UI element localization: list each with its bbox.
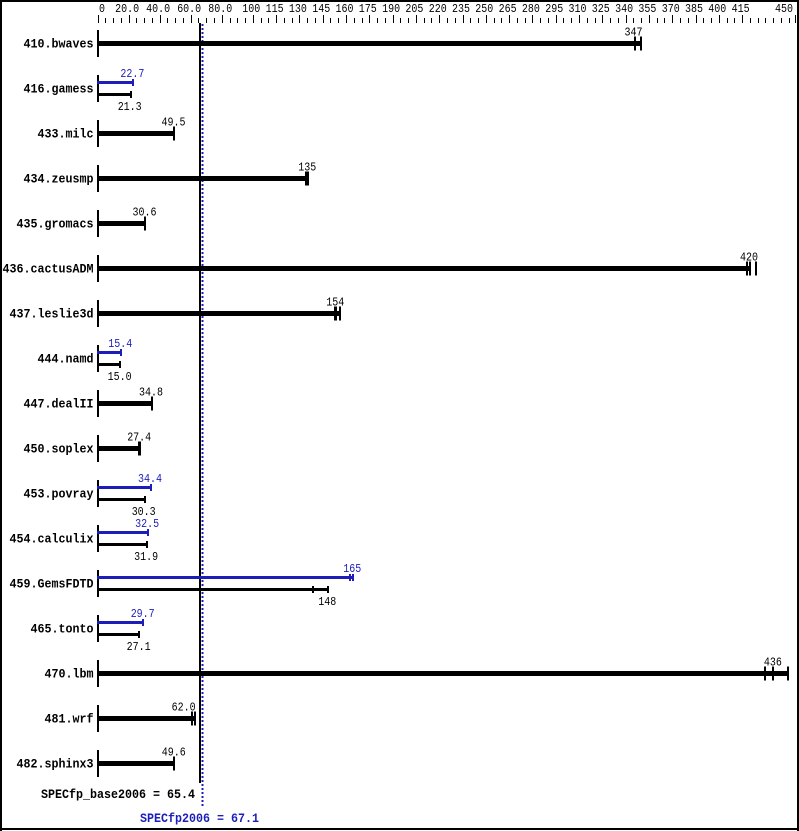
svg-text:340: 340 (615, 2, 633, 16)
row 410.bwaves (24, 26, 643, 58)
svg-text:20.0: 20.0 (115, 2, 139, 16)
svg-text:15.0: 15.0 (108, 370, 132, 384)
svg-text:62.0: 62.0 (172, 701, 196, 715)
svg-text:49.5: 49.5 (162, 116, 186, 130)
svg-text:27.4: 27.4 (127, 431, 151, 445)
row 453.povray (24, 472, 163, 519)
row 454.calculix (10, 517, 160, 564)
svg-text:385: 385 (685, 2, 703, 16)
row 433.milc (38, 116, 186, 148)
row 459.GemsFDTD (10, 562, 362, 609)
svg-text:115: 115 (266, 2, 284, 16)
row 481.wrf (45, 701, 197, 733)
row 437.leslie3d (10, 296, 345, 328)
reference line SPECfp_base2006 = 65.4 (199, 23, 201, 783)
axis ruler ticks (98, 15, 796, 23)
svg-text:154: 154 (326, 296, 344, 310)
svg-text:370: 370 (662, 2, 680, 16)
svg-text:416.gamess: 416.gamess (24, 82, 94, 97)
row 444.namd (38, 337, 133, 384)
svg-text:436: 436 (764, 656, 782, 670)
svg-text:450: 450 (775, 2, 793, 16)
svg-text:465.tonto: 465.tonto (31, 622, 94, 637)
svg-text:435.gromacs: 435.gromacs (17, 217, 94, 232)
row 436.cactusADM (3, 251, 759, 283)
row 465.tonto (31, 607, 155, 654)
svg-text:347: 347 (625, 26, 643, 40)
row 450.soplex (24, 431, 152, 463)
svg-text:220: 220 (429, 2, 447, 16)
svg-text:22.7: 22.7 (120, 67, 144, 81)
svg-text:130: 130 (289, 2, 307, 16)
row 470.lbm (45, 656, 790, 688)
row 416.gamess (24, 67, 145, 114)
svg-text:29.7: 29.7 (131, 607, 155, 621)
svg-text:205: 205 (405, 2, 423, 16)
svg-text:30.6: 30.6 (133, 206, 157, 220)
svg-text:444.namd: 444.namd (38, 352, 94, 367)
svg-text:447.dealII: 447.dealII (24, 397, 94, 412)
svg-text:454.calculix: 454.calculix (10, 532, 94, 547)
svg-text:80.0: 80.0 (208, 2, 232, 16)
svg-text:400: 400 (708, 2, 726, 16)
svg-text:32.5: 32.5 (135, 517, 159, 531)
axis scale labels (99, 2, 793, 16)
svg-text:0: 0 (99, 2, 105, 16)
svg-text:450.soplex: 450.soplex (24, 442, 94, 457)
row 482.sphinx3 (17, 746, 186, 778)
svg-text:40.0: 40.0 (146, 2, 170, 16)
svg-text:280: 280 (522, 2, 540, 16)
svg-text:60.0: 60.0 (177, 2, 201, 16)
svg-text:420: 420 (740, 251, 758, 265)
svg-text:482.sphinx3: 482.sphinx3 (17, 757, 94, 772)
svg-text:31.9: 31.9 (134, 550, 158, 564)
svg-text:355: 355 (638, 2, 656, 16)
row 434.zeusmp (24, 161, 317, 193)
svg-text:190: 190 (382, 2, 400, 16)
svg-text:434.zeusmp: 434.zeusmp (24, 172, 94, 187)
svg-text:437.leslie3d: 437.leslie3d (10, 307, 94, 322)
svg-text:34.4: 34.4 (138, 472, 162, 486)
svg-text:235: 235 (452, 2, 470, 16)
svg-text:436.cactusADM: 436.cactusADM (3, 262, 94, 277)
svg-text:21.3: 21.3 (118, 100, 142, 114)
svg-text:135: 135 (298, 161, 316, 175)
svg-text:100: 100 (242, 2, 260, 16)
svg-text:481.wrf: 481.wrf (45, 712, 94, 727)
svg-text:295: 295 (545, 2, 563, 16)
svg-text:49.6: 49.6 (162, 746, 186, 760)
svg-text:165: 165 (343, 562, 361, 576)
svg-text:15.4: 15.4 (108, 337, 132, 351)
svg-text:410.bwaves: 410.bwaves (24, 37, 94, 52)
svg-text:SPECfp_base2006 = 65.4: SPECfp_base2006 = 65.4 (41, 787, 195, 802)
svg-text:148: 148 (318, 595, 336, 609)
reference line SPECfp2006 = 67.1 (dotted) (201, 24, 203, 806)
row 447.dealII (24, 386, 164, 418)
svg-text:34.8: 34.8 (139, 386, 163, 400)
svg-text:265: 265 (499, 2, 517, 16)
svg-text:175: 175 (359, 2, 377, 16)
row 435.gromacs (17, 206, 157, 238)
svg-text:459.GemsFDTD: 459.GemsFDTD (10, 577, 94, 592)
svg-text:470.lbm: 470.lbm (45, 667, 94, 682)
svg-text:145: 145 (312, 2, 330, 16)
svg-text:160: 160 (336, 2, 354, 16)
svg-text:415: 415 (732, 2, 750, 16)
svg-text:433.milc: 433.milc (38, 127, 94, 142)
svg-text:250: 250 (475, 2, 493, 16)
svg-text:325: 325 (592, 2, 610, 16)
svg-text:27.1: 27.1 (127, 640, 151, 654)
svg-text:310: 310 (569, 2, 587, 16)
svg-text:453.povray: 453.povray (24, 487, 94, 502)
svg-text:SPECfp2006 = 67.1: SPECfp2006 = 67.1 (140, 811, 259, 826)
